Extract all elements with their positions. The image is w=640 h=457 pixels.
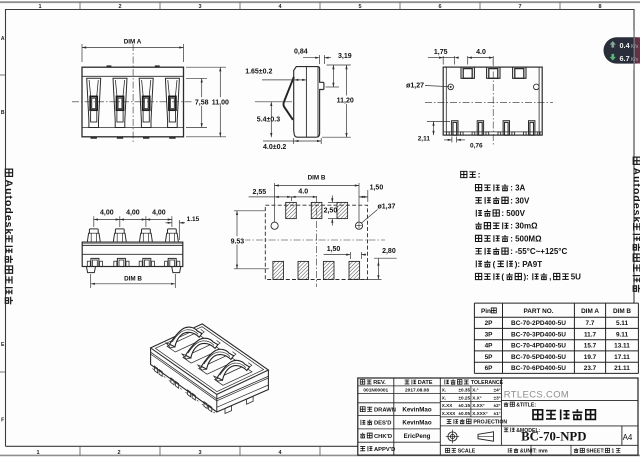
svg-text:BC-70-5PD400-5U: BC-70-5PD400-5U xyxy=(511,354,566,361)
title block: signature rows xyxy=(360,407,372,412)
title block: bottom row xyxy=(445,448,456,452)
svg-text:SCALE: SCALE xyxy=(458,449,476,455)
front view: 4 contact slots xyxy=(87,78,101,127)
svg-text:7.7: 7.7 xyxy=(586,320,595,327)
svg-text:±0.35: ±0.35 xyxy=(459,388,471,393)
3d view: body sides xyxy=(151,348,269,412)
svg-text:ø1,27: ø1,27 xyxy=(406,83,424,90)
svg-text:21.11: 21.11 xyxy=(614,365,630,372)
svg-text:2,80: 2,80 xyxy=(382,248,396,255)
svg-text:19.7: 19.7 xyxy=(584,354,597,361)
svg-text:9.53: 9.53 xyxy=(231,238,245,245)
svg-text:(: ( xyxy=(493,260,496,269)
pcb pattern: centerlines xyxy=(231,239,385,241)
svg-text:2: 2 xyxy=(118,4,121,10)
bottom view: corner feet xyxy=(86,267,95,273)
svg-text:3: 3 xyxy=(198,450,201,456)
svg-text:4.0±0.2: 4.0±0.2 xyxy=(263,144,286,151)
svg-text:&UNIT: mm: &UNIT: mm xyxy=(520,449,548,455)
svg-text:1,50: 1,50 xyxy=(370,184,384,191)
svg-text:CHK'D: CHK'D xyxy=(374,434,392,440)
svg-text:X.XX°: X.XX° xyxy=(472,403,484,408)
svg-text:11,20: 11,20 xyxy=(337,98,354,105)
svg-text:1: 1 xyxy=(611,449,614,455)
svg-text:1: 1 xyxy=(36,450,39,456)
bottom view: inner contact feet groups xyxy=(91,258,99,266)
svg-text:BC-70-3PD400-5U: BC-70-3PD400-5U xyxy=(511,331,566,338)
svg-text:Pin: Pin xyxy=(481,308,491,315)
right edge Autodesk watermark xyxy=(633,157,640,164)
3d view: cover step lines xyxy=(151,352,269,399)
specifications text xyxy=(461,171,476,177)
front view: DIM A dimension xyxy=(81,44,83,62)
svg-text:: -55°C~+125°C: : -55°C~+125°C xyxy=(510,247,567,256)
front view: 7.58 dimension xyxy=(186,77,207,79)
svg-text:DIM B: DIM B xyxy=(613,308,631,315)
svg-text:X.°: X.° xyxy=(472,388,478,393)
svg-text:A4: A4 xyxy=(623,433,633,442)
svg-text:9.11: 9.11 xyxy=(616,331,629,338)
left edge Autodesk watermark xyxy=(5,169,12,176)
svg-text:001N00001: 001N00001 xyxy=(363,388,388,394)
svg-text:TOLERANCE: TOLERANCE xyxy=(471,380,504,386)
svg-text:):: ): xyxy=(524,273,529,282)
3d view: bottom rim line xyxy=(217,385,269,407)
svg-text:Autodesk: Autodesk xyxy=(630,168,640,224)
svg-text:: 30mΩ: : 30mΩ xyxy=(510,222,538,231)
svg-text:BC-70-6PD400-5U: BC-70-6PD400-5U xyxy=(511,365,566,372)
side view: inner vertical lines xyxy=(305,67,307,138)
network speed overlay badge xyxy=(604,37,640,63)
svg-text:PROJECTION: PROJECTION xyxy=(473,420,507,426)
svg-text:±3°: ±3° xyxy=(494,395,501,400)
top view: corner holes xyxy=(448,84,454,90)
svg-text:11.7: 11.7 xyxy=(584,331,597,338)
svg-text:3,19: 3,19 xyxy=(338,53,352,60)
3d view: top face xyxy=(151,324,269,395)
svg-text:): PA9T: ): PA9T xyxy=(515,260,543,269)
3d view: 4 contact slots and spring contacts xyxy=(167,333,204,352)
svg-text:REV.: REV. xyxy=(373,380,386,386)
svg-text:±1°: ±1° xyxy=(494,411,501,416)
sheet outer bottom edge line xyxy=(0,454,640,456)
pin table xyxy=(474,302,638,304)
svg-text:5U: 5U xyxy=(571,273,581,282)
badge arrows and text xyxy=(610,41,616,48)
svg-text:15.7: 15.7 xyxy=(584,343,597,350)
pcb pattern: holes xyxy=(271,222,278,229)
top view: 4 bottom contacts xyxy=(452,121,458,135)
svg-text:4,00: 4,00 xyxy=(152,210,166,217)
svg-text:BC-70-2PD400-5U: BC-70-2PD400-5U xyxy=(511,320,566,327)
svg-text:(: ( xyxy=(501,273,504,282)
svg-text:DRAWN: DRAWN xyxy=(374,408,396,414)
svg-text:2,50: 2,50 xyxy=(324,208,338,215)
svg-text:RTLECS.COM: RTLECS.COM xyxy=(504,389,569,400)
svg-text:13.11: 13.11 xyxy=(614,343,630,350)
svg-text:,: , xyxy=(549,273,551,282)
svg-text:F: F xyxy=(1,418,4,424)
svg-text:5.4±0.3: 5.4±0.3 xyxy=(257,117,280,124)
svg-text:KevinMao: KevinMao xyxy=(402,420,431,427)
svg-text:BC-70-4PD400-5U: BC-70-4PD400-5U xyxy=(511,343,566,350)
svg-text:X.XXX°: X.XXX° xyxy=(472,411,488,416)
svg-text:ø1,37: ø1,37 xyxy=(378,204,396,211)
svg-text:DATE: DATE xyxy=(418,380,433,386)
svg-text:X.: X. xyxy=(442,395,446,400)
svg-text:7,58: 7,58 xyxy=(195,99,209,106)
svg-text:1.65±0.2: 1.65±0.2 xyxy=(245,69,272,76)
svg-text:4P: 4P xyxy=(485,343,494,350)
left zone ticks xyxy=(0,74,6,76)
svg-text:1,75: 1,75 xyxy=(434,49,448,56)
bottom view: 4 top contacts xyxy=(87,229,100,242)
svg-text:: 500V: : 500V xyxy=(501,209,525,218)
top view: centerlines xyxy=(425,101,553,103)
svg-text:Autodesk: Autodesk xyxy=(2,180,14,236)
side view: spring contact xyxy=(284,77,294,120)
svg-text:6: 6 xyxy=(438,4,441,10)
svg-text:±0.05: ±0.05 xyxy=(459,411,471,416)
svg-text:K/s: K/s xyxy=(631,57,639,63)
svg-text:PART NO.: PART NO. xyxy=(523,308,553,315)
pcb pattern: top pads xyxy=(286,202,297,218)
svg-text:4.0: 4.0 xyxy=(298,188,308,195)
svg-text:X.XX: X.XX xyxy=(442,403,453,408)
svg-text:SHEET:: SHEET: xyxy=(586,449,605,455)
front view: bottom edge pads xyxy=(91,137,97,139)
3d view: feet on right lower edge xyxy=(225,406,232,414)
svg-text:±2°: ±2° xyxy=(494,403,501,408)
svg-text:EricPeng: EricPeng xyxy=(404,433,431,440)
sheet outer top edge line xyxy=(0,1,640,3)
svg-text:23.7: 23.7 xyxy=(584,365,597,372)
svg-text:&TITLE:: &TITLE: xyxy=(516,402,536,408)
svg-text:6P: 6P xyxy=(485,365,494,372)
svg-text:2,11: 2,11 xyxy=(418,135,431,142)
svg-text:1: 1 xyxy=(38,4,41,10)
svg-text:DIM B: DIM B xyxy=(124,275,142,282)
svg-text:±4°: ±4° xyxy=(494,388,501,393)
svg-text:4.0: 4.0 xyxy=(476,49,486,56)
svg-text:6.7: 6.7 xyxy=(620,54,630,63)
svg-text:5.11: 5.11 xyxy=(616,320,629,327)
svg-text:2017.08.08: 2017.08.08 xyxy=(405,388,429,394)
pcb pattern: dashed outline xyxy=(265,205,367,279)
title block: part name xyxy=(504,402,515,406)
svg-text:0,76: 0,76 xyxy=(470,143,483,150)
front view: 11.00 dimension xyxy=(186,66,226,68)
svg-text:5P: 5P xyxy=(485,354,494,361)
front view: centerlines xyxy=(132,44,134,143)
svg-text:BC-70-NPD: BC-70-NPD xyxy=(521,430,586,444)
svg-text:5: 5 xyxy=(358,4,361,10)
svg-text:8: 8 xyxy=(598,4,601,10)
title block: projection symbols xyxy=(448,432,457,441)
bottom view: body outline xyxy=(82,242,183,266)
side view: 11.20 dimension xyxy=(322,136,351,138)
front view: body outline xyxy=(82,67,184,137)
svg-text:DES'D: DES'D xyxy=(374,421,391,427)
3d view: feet on front lower edge xyxy=(154,366,157,373)
title block frame xyxy=(358,378,638,455)
svg-text:0,84: 0,84 xyxy=(294,49,308,56)
pcb pattern: bottom pads xyxy=(273,261,284,279)
svg-text:0.4: 0.4 xyxy=(620,41,631,50)
svg-text:1,50: 1,50 xyxy=(327,246,341,253)
title block: tolerance table xyxy=(445,379,469,384)
svg-text:APPV'D: APPV'D xyxy=(374,447,395,453)
svg-text:K/s: K/s xyxy=(631,44,639,50)
svg-text:A: A xyxy=(1,36,5,42)
3d view: top face inner rim xyxy=(155,327,263,392)
pcb: 9.53 dimension xyxy=(234,210,266,212)
svg-text:4,00: 4,00 xyxy=(100,210,114,217)
svg-text:DIM A: DIM A xyxy=(581,308,599,315)
svg-text:: 500MΩ: : 500MΩ xyxy=(510,234,542,243)
svg-text:2P: 2P xyxy=(485,320,494,327)
svg-text:17.11: 17.11 xyxy=(614,354,630,361)
svg-text:±0.15: ±0.15 xyxy=(459,403,471,408)
svg-text:2,55: 2,55 xyxy=(253,189,267,196)
svg-text:: 30V: : 30V xyxy=(510,196,530,205)
title block: model xyxy=(504,428,515,433)
top view: body outline xyxy=(443,67,542,135)
svg-text:DIM A: DIM A xyxy=(124,39,142,46)
top view: 3 top latch tabs xyxy=(461,67,474,78)
bottom zone ticks xyxy=(79,446,81,455)
top zone ticks xyxy=(79,2,81,9)
svg-text:3P: 3P xyxy=(485,331,494,338)
svg-text:11,00: 11,00 xyxy=(212,99,229,106)
svg-text:: 3A: : 3A xyxy=(510,184,525,193)
svg-text:7: 7 xyxy=(518,4,521,10)
svg-text:3: 3 xyxy=(198,4,201,10)
svg-text:DIM B: DIM B xyxy=(308,175,326,182)
front view: top edge bumps xyxy=(107,65,112,67)
svg-text:±0.25: ±0.25 xyxy=(459,395,471,400)
svg-text:2: 2 xyxy=(117,450,120,456)
svg-text:X.: X. xyxy=(442,388,446,393)
svg-text:1.15: 1.15 xyxy=(187,216,200,223)
svg-text:X.X°: X.X° xyxy=(472,395,481,400)
svg-text::: : xyxy=(478,171,481,180)
svg-text:KevinMao: KevinMao xyxy=(402,407,431,414)
svg-text:X.XXX: X.XXX xyxy=(442,411,456,416)
side view: body outline xyxy=(294,67,324,138)
svg-text:B: B xyxy=(1,110,5,116)
svg-text:4,00: 4,00 xyxy=(126,210,140,217)
title block: header labels xyxy=(360,380,371,385)
